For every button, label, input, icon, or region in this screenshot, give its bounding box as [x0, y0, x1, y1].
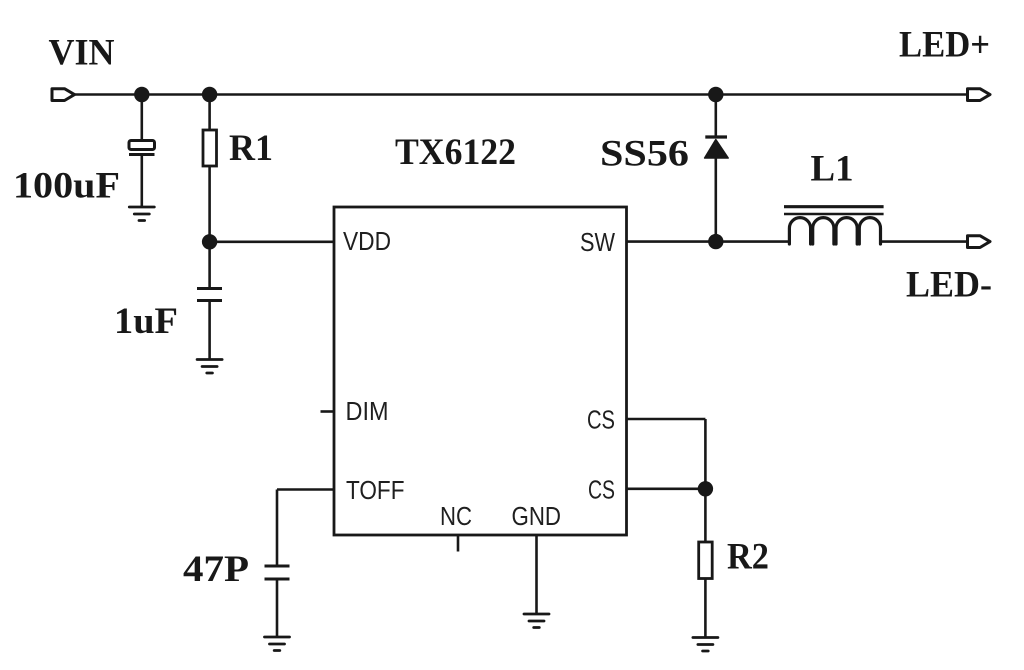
- diode D1 SS56 cathode bar: [705, 135, 727, 138]
- ground at R2: [693, 638, 718, 652]
- wire L1 to LED- terminal: [882, 240, 968, 243]
- svg-text:CS: CS: [587, 407, 615, 435]
- ground at 47P: [265, 637, 290, 651]
- wire 100uF cap down from rail: [141, 95, 144, 142]
- resistor R1: [203, 130, 217, 166]
- diode SS56 triangle: [705, 140, 729, 159]
- svg-text:1uF: 1uF: [114, 301, 178, 342]
- wire diode cathode up to rail: [714, 95, 717, 138]
- junction node SW/diode: [708, 234, 723, 249]
- junction node on rail at diode: [708, 87, 723, 102]
- wire R1 bottom to VDD node: [208, 166, 211, 242]
- svg-text:R2: R2: [727, 537, 769, 578]
- svg-text:L1: L1: [811, 149, 854, 190]
- wire diode anode down to SW node: [714, 157, 717, 242]
- junction node VDD/1uF: [202, 234, 217, 249]
- wire top rail VIN to LED+: [74, 93, 968, 96]
- wire SW pin to diode node to L1: [627, 240, 790, 243]
- svg-text:SS56: SS56: [600, 134, 689, 175]
- wire GND pin down: [535, 535, 538, 614]
- wire R2 to ground: [704, 579, 707, 638]
- svg-text:100uF: 100uF: [13, 166, 120, 207]
- svg-text:TX6122: TX6122: [395, 132, 516, 173]
- svg-text:VIN: VIN: [49, 33, 115, 74]
- op IC U1 TX6122 box: [334, 207, 627, 535]
- wire TOFF down to 47P: [276, 490, 279, 567]
- svg-text:DIM: DIM: [346, 398, 389, 426]
- capacitor 1uF plates: [197, 289, 222, 301]
- junction node CS/R2: [698, 481, 713, 496]
- ground at 100uF: [129, 207, 154, 221]
- wire node to VDD pin: [210, 241, 334, 244]
- terminal LED+: [968, 89, 991, 101]
- svg-text:TOFF: TOFF: [346, 477, 405, 505]
- wire node down to R2: [704, 489, 707, 542]
- wire TOFF pin left: [277, 488, 334, 491]
- terminal LED-: [968, 236, 991, 248]
- ground at 1uF: [197, 360, 222, 374]
- svg-text:CS: CS: [588, 476, 615, 504]
- capacitor C 100uF polarized top plate: [129, 141, 155, 150]
- svg-text:47P: 47P: [183, 549, 249, 590]
- wire 47P to ground: [276, 579, 279, 637]
- svg-text:VDD: VDD: [343, 228, 391, 256]
- wire 1uF to ground: [208, 301, 211, 360]
- wire DIM stub: [321, 410, 335, 413]
- wire R1 top: [208, 95, 211, 132]
- terminal VIN: [52, 89, 75, 101]
- ground at GND pin: [524, 614, 549, 628]
- svg-text:LED+: LED+: [899, 25, 990, 66]
- svg-text:GND: GND: [512, 503, 562, 531]
- wire CS lower pin to node: [627, 487, 706, 490]
- svg-text:SW: SW: [580, 229, 615, 257]
- capacitor 47P plates: [265, 566, 290, 579]
- inductor L1 windings: [789, 218, 880, 244]
- wire NC stub: [457, 535, 460, 552]
- wire CS upper down to node: [704, 419, 707, 489]
- wire CS upper pin right: [627, 418, 706, 421]
- wire 100uF to ground: [141, 155, 144, 208]
- capacitor 100uF bottom plate: [129, 153, 155, 156]
- svg-text:R1: R1: [229, 128, 273, 169]
- svg-text:NC: NC: [440, 503, 472, 531]
- wire node down to 1uF: [208, 242, 211, 288]
- resistor R2: [699, 542, 713, 579]
- inductor L1 core lines: [784, 205, 884, 208]
- junction node on rail at 100uF: [134, 87, 149, 102]
- junction node on rail at R1: [202, 87, 217, 102]
- svg-text:LED-: LED-: [906, 265, 992, 306]
